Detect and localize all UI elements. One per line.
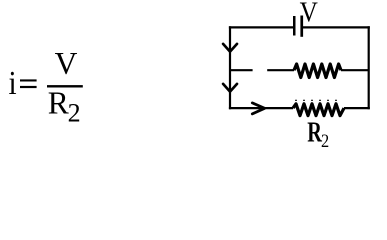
wire: bottom right segment: [344, 107, 370, 109]
wire: middle branch dash 2 (after gap): [267, 69, 294, 71]
resistor R2 zigzag: [293, 104, 344, 116]
svg-text:V: V: [300, 0, 319, 28]
battery V1: right plate: [300, 16, 303, 37]
svg-text:2: 2: [321, 130, 329, 150]
svg-text:R: R: [48, 86, 69, 121]
formula i = V/R2: [9, 46, 83, 128]
svg-text:i: i: [9, 64, 17, 102]
wire: top-right segment (battery to right corner): [303, 26, 370, 28]
current arrow (down) on left wire, upper: [223, 44, 237, 52]
current arrow (right) on bottom wire: [252, 103, 264, 114]
current arrow (down) on left wire, lower: [223, 84, 237, 92]
resistor R2 tip dots: [295, 100, 337, 101]
svg-text:V: V: [55, 46, 78, 81]
label R2 (resistor): [307, 117, 329, 151]
battery V1: left plate: [293, 16, 296, 36]
wire: bottom left segment: [229, 107, 293, 109]
wire: left vertical: [229, 26, 231, 109]
wire: top-left segment (left corner to battery): [229, 26, 293, 28]
resistor (middle branch, disconnected) zigzag: [294, 64, 341, 78]
wire: middle branch left dash 1: [230, 69, 253, 71]
wire: right vertical: [368, 26, 370, 109]
wire: middle branch right segment (resistor to right wire): [341, 69, 369, 71]
svg-text:2: 2: [68, 99, 81, 128]
